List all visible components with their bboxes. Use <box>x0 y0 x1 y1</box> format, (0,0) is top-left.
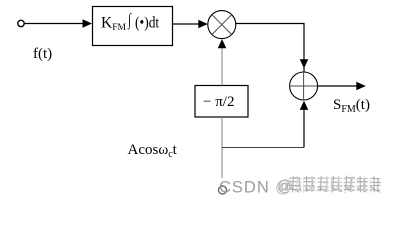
watermark username glyph fuzz (doubled offset layer) <box>294 176 372 193</box>
input terminal f(t) <box>18 20 24 26</box>
svg-text:CSDN: CSDN <box>219 179 270 197</box>
svg-text:Acosωct: Acosωct <box>128 142 178 160</box>
watermark username glyph fuzz (gray layer) <box>289 176 382 193</box>
svg-text:f(t): f(t) <box>33 46 52 62</box>
wire multiplier to adder (top path) <box>235 24 304 72</box>
multiplier (circle with X) <box>208 11 236 39</box>
arrowhead up into adder <box>300 101 309 110</box>
watermark C hook artifact <box>219 186 227 194</box>
output arrowhead <box>356 82 366 91</box>
wire up into adder (bottom path) <box>303 109 305 148</box>
adder (circle with plus) <box>290 72 318 100</box>
wire phase shifter to multiplier <box>221 48 223 86</box>
phase shifter block -pi/2 <box>195 86 248 118</box>
arrowhead down into adder <box>300 59 309 68</box>
carrier input wire (vertical below phase shifter) <box>221 117 223 178</box>
integrator block KFM <box>93 7 173 46</box>
wire input to integrator <box>25 23 84 25</box>
wire carrier branch junction to adder column <box>222 147 304 149</box>
svg-text:− π/2: − π/2 <box>203 94 234 110</box>
wire integrator to multiplier <box>173 23 200 25</box>
arrowhead up into multiplier <box>218 39 227 48</box>
watermark cell separators <box>302 174 370 193</box>
arrowhead into multiplier <box>198 20 208 29</box>
svg-text:SFM(t): SFM(t) <box>333 97 370 115</box>
svg-text:(•)dt: (•)dt <box>135 15 159 32</box>
arrowhead into integrator <box>83 19 93 28</box>
output wire <box>318 85 357 87</box>
watermark username glyph fuzz (white emboss layer) <box>290 177 383 194</box>
